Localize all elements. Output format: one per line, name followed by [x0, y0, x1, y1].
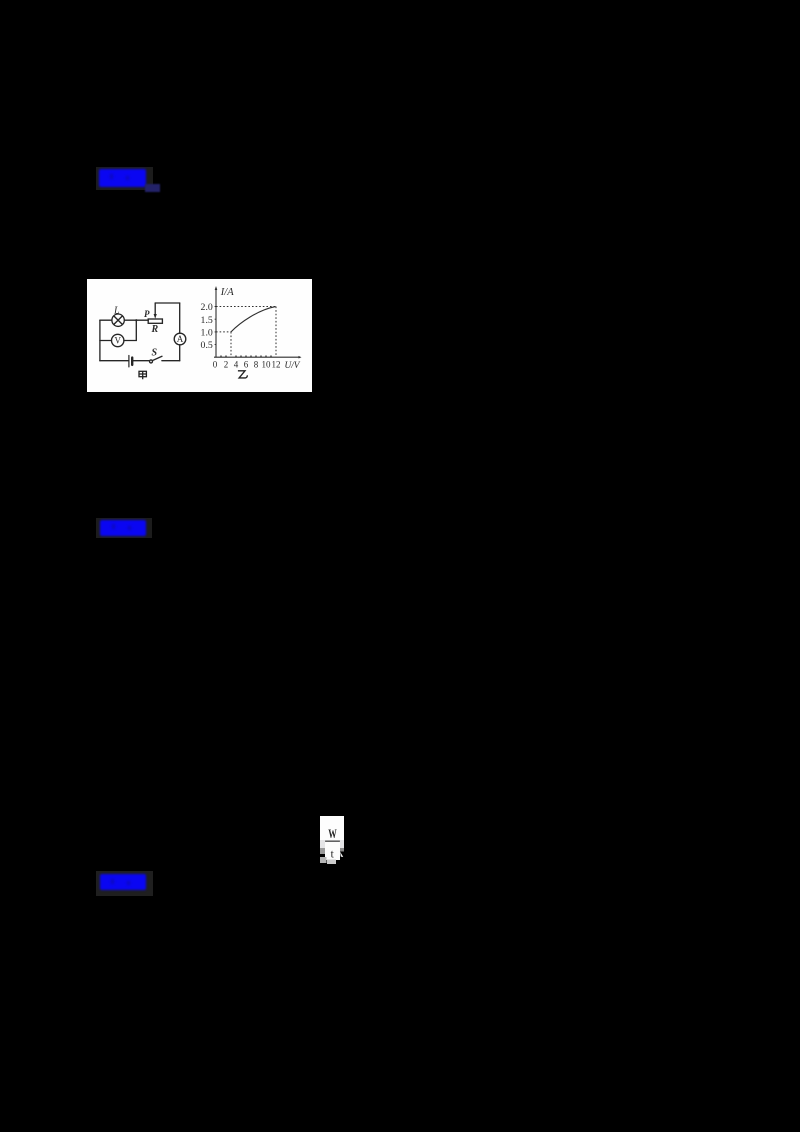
fraction bar — [325, 840, 340, 842]
node label2 blue text 【解答】 — [100, 520, 146, 536]
dashed guide 2.0 — [216, 306, 276, 308]
svg-text:V: V — [114, 336, 121, 346]
svg-text:8: 8 — [254, 359, 259, 369]
wire bottom left segment — [100, 360, 129, 362]
node scan image (circuit 甲 and graph 乙) — [87, 279, 312, 392]
x axis tick dots — [220, 355, 271, 356]
svg-text:U/V: U/V — [285, 361, 301, 371]
switch S contact circle — [150, 360, 153, 363]
svg-text:I/A: I/A — [220, 287, 234, 298]
curve I-U — [231, 307, 276, 332]
axis arrowheads — [215, 286, 218, 290]
svg-text:1.0: 1.0 — [201, 328, 213, 339]
svg-text:0.5: 0.5 — [201, 340, 213, 351]
svg-text:R: R — [151, 324, 159, 335]
svg-text:A: A — [177, 334, 184, 344]
svg-text:4: 4 — [234, 359, 239, 369]
y tick labels — [201, 302, 213, 351]
svg-text:2.0: 2.0 — [201, 302, 213, 313]
graph axes — [214, 289, 299, 358]
dashed guide U=12 — [275, 307, 277, 358]
cursor artifact — [340, 852, 343, 858]
svg-text:P: P — [144, 309, 150, 319]
svg-text:12: 12 — [272, 359, 281, 369]
svg-text:10: 10 — [262, 359, 272, 369]
svg-text:2: 2 — [224, 359, 229, 369]
label 甲 — [139, 371, 146, 379]
svg-text:W: W — [328, 827, 337, 841]
wire lamp branch — [100, 319, 136, 321]
svg-text:L: L — [113, 306, 120, 317]
battery cell — [128, 356, 130, 367]
wire voltmeter branch — [100, 340, 136, 342]
switch S lever — [152, 356, 162, 360]
x tick labels — [213, 359, 281, 369]
wire left vertical — [99, 320, 101, 361]
svg-text:6: 6 — [244, 359, 249, 369]
dashed guide 1.0 — [216, 331, 231, 333]
node label1 blue text 【分析】 — [99, 169, 146, 187]
wire bottom mid segment — [132, 360, 149, 362]
wire top horizontal — [155, 302, 180, 304]
label 乙 — [238, 371, 248, 378]
svg-text:S: S — [152, 348, 158, 359]
wire bottom right segment — [162, 360, 180, 362]
y ticks — [215, 307, 216, 345]
node label3 blue text 【点评】 — [100, 874, 146, 890]
node formula W/t box — [319, 815, 345, 865]
junction dot — [135, 319, 137, 321]
node label1 navy underline block — [145, 184, 160, 192]
wire junction vertical — [135, 320, 137, 340]
resistor R rheostat body — [148, 319, 162, 323]
svg-text:1.5: 1.5 — [201, 315, 213, 326]
dashed guide U=3 — [230, 332, 232, 357]
lamp L — [112, 314, 124, 326]
voltmeter V — [112, 334, 124, 346]
wire right vertical upper — [179, 303, 181, 333]
node label1 halo (分析 heading background) — [96, 167, 153, 190]
slider arrowhead P — [154, 314, 157, 319]
ammeter A — [174, 333, 186, 345]
node label3 halo (点评 heading background) — [96, 871, 153, 896]
wire to rheostat — [136, 319, 148, 321]
svg-text:0: 0 — [213, 359, 218, 369]
wire slider stem — [154, 303, 156, 315]
wire right vertical lower — [179, 345, 181, 361]
formula background — [320, 816, 344, 842]
node label2 halo (解答 heading background) — [96, 518, 152, 538]
